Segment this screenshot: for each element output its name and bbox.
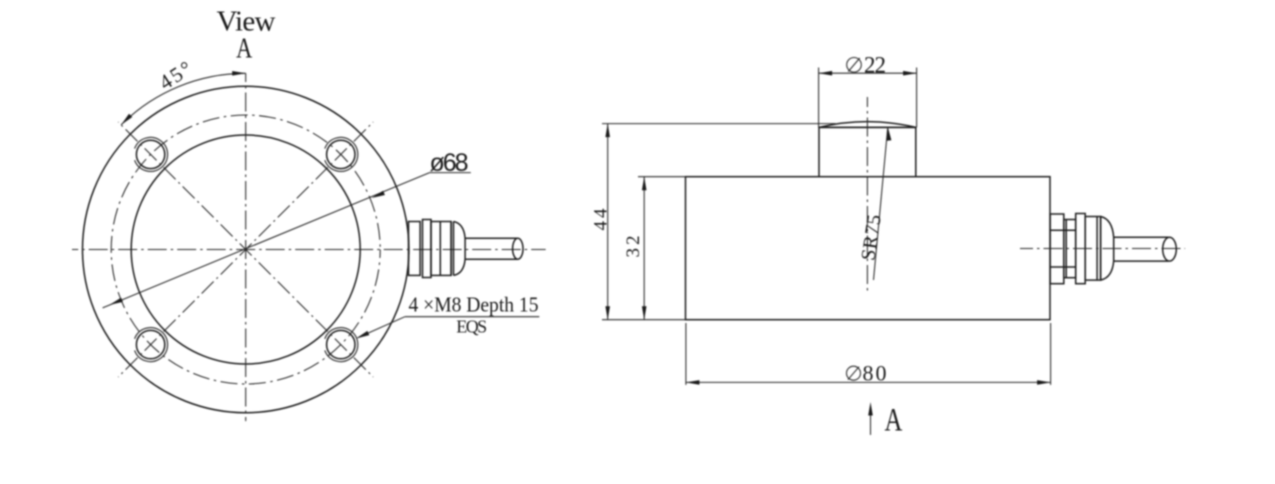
diagonal centerline 135-315 xyxy=(118,122,373,377)
dia80 symbol xyxy=(847,366,861,380)
right gland dome xyxy=(1101,217,1114,281)
diagonal centerline 45-225 xyxy=(118,122,373,377)
dia68 leader line xyxy=(103,173,430,308)
section arrow A xyxy=(870,414,872,435)
dim 44 top extension xyxy=(602,123,836,125)
M8 note arrow xyxy=(356,331,369,339)
bolt hole M8 (45 deg) xyxy=(327,140,355,168)
left view: flange outer circle xyxy=(83,86,409,412)
dia68 arrow lower xyxy=(110,298,123,305)
45deg dimension arc xyxy=(121,73,246,125)
boss chord line xyxy=(819,126,916,128)
right gland centerline xyxy=(1020,248,1185,250)
svg-text:45°: 45° xyxy=(155,56,197,95)
right gland band 4 xyxy=(1085,217,1100,281)
right view boss xyxy=(819,127,916,176)
horizontal centerline xyxy=(72,249,546,251)
M8 note leader xyxy=(358,317,405,338)
dim 44 line xyxy=(607,124,609,320)
vertical centerline xyxy=(245,73,247,421)
left view cable end xyxy=(513,238,523,259)
left view cable gland band 2 xyxy=(423,220,432,278)
arrow at 135deg end of 45deg arc xyxy=(121,114,132,125)
right gland neck lines xyxy=(1050,229,1076,231)
M8 note underline xyxy=(405,316,539,318)
svg-text:32: 32 xyxy=(623,236,644,258)
right view body xyxy=(686,177,1051,320)
dia68 underline xyxy=(430,172,471,174)
right gland band 2 xyxy=(1064,220,1076,278)
bolt hole M8 (225 deg) xyxy=(136,330,164,358)
right cable xyxy=(1114,236,1169,238)
right gland flange band xyxy=(1050,214,1064,284)
SR75 leader xyxy=(874,127,888,280)
dim dia22 line xyxy=(819,72,917,74)
left view: inner circle xyxy=(131,135,360,364)
arrow at top of 45deg arc xyxy=(232,71,246,76)
svg-text:ø68: ø68 xyxy=(430,149,469,177)
svg-text:22: 22 xyxy=(864,52,886,77)
boss spherical top SR75 xyxy=(819,122,916,128)
left view cable xyxy=(465,237,518,239)
bolt hole M8 (135 deg) xyxy=(136,140,164,168)
svg-text:SR75: SR75 xyxy=(857,213,886,262)
left view cable gland band 1 xyxy=(409,222,421,276)
svg-text:A: A xyxy=(885,402,903,438)
svg-text:4 ×M8 Depth 15: 4 ×M8 Depth 15 xyxy=(409,293,539,317)
left view cable gland dome xyxy=(454,222,466,276)
svg-text:80: 80 xyxy=(863,361,887,386)
dim 32 top extension xyxy=(638,176,686,178)
left view cable gland body xyxy=(431,222,451,276)
dia22 symbol xyxy=(847,58,862,73)
dia68 arrow upper xyxy=(372,191,385,198)
dim 44 bottom extension xyxy=(602,319,686,321)
left view: bolt circle (dash-dot) xyxy=(111,115,380,384)
dim dia80 line xyxy=(686,381,1051,383)
right cable end xyxy=(1163,237,1177,261)
svg-text:EQS: EQS xyxy=(456,316,487,336)
dim dia22 extension lines xyxy=(818,68,820,128)
right gland band 3 (nut) xyxy=(1076,214,1086,284)
svg-text:44: 44 xyxy=(591,208,612,231)
bolt hole M8 (315 deg) xyxy=(327,330,355,358)
dim dia80 extension lines xyxy=(685,323,687,385)
svg-text:A: A xyxy=(236,33,253,64)
dim 32 line xyxy=(643,177,645,320)
boss centerline xyxy=(866,97,868,294)
